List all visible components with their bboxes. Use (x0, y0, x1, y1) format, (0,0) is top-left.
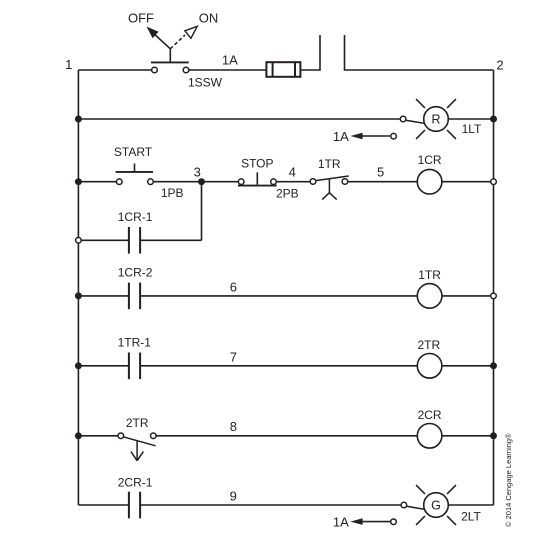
1LT label (462, 122, 482, 136)
node 9 label (230, 489, 237, 504)
2TR contact label (126, 416, 149, 430)
wire: 2LT to right rail corner (448, 504, 493, 506)
1TR-1 label (118, 336, 152, 350)
coil 1CR (417, 169, 442, 194)
lamp 2LT blade (407, 506, 425, 509)
2PB label (276, 186, 299, 200)
lamp 1LT blade (406, 120, 424, 123)
svg-text:1A: 1A (222, 53, 238, 68)
coil 1TR (417, 284, 442, 309)
fuse F1 (266, 62, 300, 77)
wire 1A tap at 1LT (circle and arrow) (350, 133, 396, 140)
timed contact 1TR (NOTC) (310, 176, 349, 200)
START label (114, 145, 153, 159)
svg-text:2TR: 2TR (417, 338, 440, 352)
wire: rail to contact 1CR-2 (78, 295, 128, 297)
pilot light 1LT (R) (416, 99, 456, 139)
svg-text:2LT: 2LT (461, 510, 481, 524)
wire: coil 1TR to right rail (442, 295, 494, 297)
svg-text:1: 1 (65, 57, 72, 72)
junction dot rail-rung5 (75, 362, 82, 369)
terminal circle rail-1CR (491, 179, 497, 185)
lamp 1LT terminal circle (400, 116, 406, 122)
node 7 label (230, 350, 237, 365)
wire: fuse to power stub (302, 35, 321, 70)
wire: 1TR contact to coil 1CR (348, 181, 418, 183)
svg-text:2CR-1: 2CR-1 (118, 476, 153, 490)
coil 2TR (417, 354, 442, 379)
branch wire node 3 down to rung 3 (201, 182, 203, 241)
node 6 label (230, 280, 237, 295)
wire 1A: switch to fuse (189, 69, 266, 71)
wire 7: 1TR-1 to coil 2TR (140, 365, 417, 367)
svg-text:1TR: 1TR (318, 157, 341, 171)
svg-text:R: R (431, 113, 440, 127)
node 2 label (496, 57, 503, 72)
R letter in 1LT (431, 113, 440, 127)
2CR-1 label (118, 476, 153, 490)
pushbutton 2PB (STOP, NC) (238, 172, 277, 185)
contact 1CR-1 (NO) (129, 227, 140, 254)
svg-text:4: 4 (289, 165, 296, 180)
1A label at 1LT (333, 129, 349, 144)
right rail (L2) (493, 70, 495, 505)
wire: 1LT to right rail (448, 118, 493, 120)
junction dot rail-2TR (490, 362, 497, 369)
1CR label (418, 153, 442, 167)
svg-text:1CR-1: 1CR-1 (118, 210, 153, 224)
wire: coil 1CR to right rail (442, 181, 494, 183)
1TR contact label (318, 157, 341, 171)
svg-text:OFF: OFF (128, 11, 154, 26)
terminal circle rail-1TR (491, 293, 497, 299)
pushbutton 1PB (START, NO) (116, 164, 154, 185)
wire: 1CR-1 to node 3 branch (140, 239, 201, 241)
svg-text:1TR: 1TR (418, 268, 441, 282)
junction dot rail-rung6 (75, 432, 82, 439)
node 5 label (377, 165, 384, 180)
svg-text:9: 9 (230, 489, 237, 504)
node 3 junction dot (198, 178, 205, 185)
svg-text:2: 2 (496, 57, 503, 72)
2TR coil label (417, 338, 440, 352)
toggle switch 1SSW (151, 49, 189, 73)
wire: left rail to 1PB (78, 181, 116, 183)
svg-text:G: G (431, 499, 441, 513)
2LT label (461, 510, 481, 524)
svg-text:1LT: 1LT (462, 122, 482, 136)
ON arrow (dashed, open head) (170, 26, 197, 49)
svg-text:© 2014 Cengage Learning®: © 2014 Cengage Learning® (504, 433, 513, 527)
svg-text:2CR: 2CR (418, 408, 442, 422)
coil 2CR (417, 424, 442, 449)
svg-text:3: 3 (194, 165, 201, 180)
svg-text:6: 6 (230, 280, 237, 295)
svg-text:START: START (114, 145, 153, 159)
svg-text:STOP: STOP (241, 156, 273, 170)
node 3 label (194, 165, 201, 180)
OFF label (128, 11, 154, 26)
svg-text:1A: 1A (333, 514, 349, 529)
svg-text:1TR-1: 1TR-1 (118, 336, 152, 350)
1A label at 2LT (333, 514, 349, 529)
terminal circle rail-rung3 (76, 238, 82, 244)
junction dot rail-rung2 (75, 178, 82, 185)
svg-text:5: 5 (377, 165, 384, 180)
junction dot rail-rung1 (75, 116, 82, 123)
left rail (L1) (77, 70, 79, 505)
wire: rail to contact 1CR-1 (81, 239, 129, 241)
wire: 2PB to 1TR contact (276, 181, 310, 183)
svg-text:8: 8 (230, 419, 237, 434)
svg-text:ON: ON (199, 11, 219, 26)
timed contact 2TR (NCTO) (118, 433, 156, 461)
junction dot rail-1LT (490, 116, 497, 123)
node 1 label (65, 57, 72, 72)
svg-text:1A: 1A (333, 129, 349, 144)
1CR-1 label (118, 210, 153, 224)
1TR coil label (418, 268, 441, 282)
wire 1A tap at 2LT (circle and arrow) (350, 518, 396, 525)
svg-text:1CR: 1CR (418, 153, 442, 167)
power stub L2 side (345, 35, 494, 70)
copyright notice (504, 433, 513, 527)
node 4 label (289, 165, 296, 180)
wire: left rail to switch 1SSW (78, 69, 151, 71)
contact 2CR-1 (NO) (129, 492, 140, 519)
wire: rail to contact 1TR-1 (78, 365, 128, 367)
1SSW label (188, 75, 223, 89)
wire: rail corner to contact 2CR-1 (78, 504, 128, 506)
wire: 1PB to 2PB through node 3 (153, 181, 238, 183)
junction dot rail-2CR (490, 432, 497, 439)
node 8 label (230, 419, 237, 434)
wire 1A label (222, 53, 238, 68)
contact 1TR-1 (NO) (129, 353, 140, 380)
wire: coil 2TR to right rail (442, 365, 494, 367)
svg-text:2TR: 2TR (126, 416, 149, 430)
svg-text:1CR-2: 1CR-2 (118, 266, 153, 280)
rung 1 wire: left rail to lamp switch (78, 118, 400, 120)
svg-text:1SSW: 1SSW (188, 75, 223, 89)
OFF arrow (solid) (147, 27, 171, 49)
ON label (199, 11, 219, 26)
wire: rail to contact 2TR (78, 435, 118, 437)
STOP label (241, 156, 273, 170)
G letter in 2LT (431, 499, 441, 513)
1CR-2 label (118, 266, 153, 280)
wire: coil 2CR to right rail (442, 435, 494, 437)
wire 6: 1CR-2 to coil 1TR (140, 295, 417, 297)
lamp 2LT terminal circle (401, 502, 407, 508)
wire 9: 2CR-1 to lamp 2LT (140, 504, 401, 506)
pilot light 2LT (G) (416, 485, 456, 525)
1PB label (161, 186, 184, 200)
svg-text:1PB: 1PB (161, 186, 184, 200)
svg-text:2PB: 2PB (276, 186, 299, 200)
contact 1CR-2 (NO) (129, 283, 140, 310)
2CR coil label (418, 408, 442, 422)
wire 8: 2TR contact to coil 2CR (156, 435, 417, 437)
svg-text:7: 7 (230, 350, 237, 365)
junction dot rail-rung4 (75, 292, 82, 299)
